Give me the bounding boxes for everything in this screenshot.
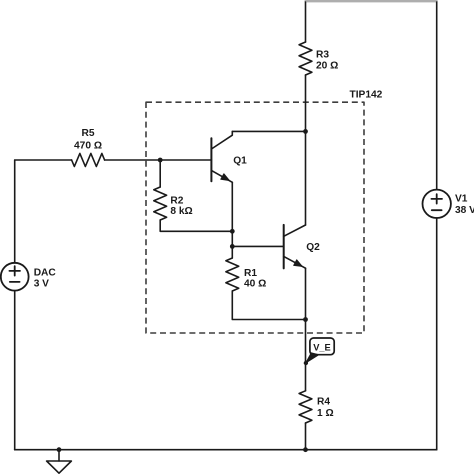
label R4 value 1 ohm [317,408,334,419]
svg-text:R5: R5 [81,128,94,139]
svg-text:38 V: 38 V [455,205,474,216]
label DAC value 3 V [34,278,49,289]
wire: bottom rail [15,449,437,451]
svg-text:R2: R2 [170,196,183,207]
label R5 name [81,128,94,139]
svg-text:Q2: Q2 [306,242,320,253]
label R2 name [170,196,183,207]
TIP142 dashed enclosure [146,102,364,333]
svg-text:R4: R4 [317,397,330,408]
svg-text:R3: R3 [316,50,329,61]
label R4 name [317,397,330,408]
svg-text:470 Ω: 470 Ω [74,141,102,152]
label R5 value 470 ohm [74,141,102,152]
voltage source V1 [423,190,451,218]
junction: R2 top on base wire [158,158,163,163]
wire: top rail from center rail to V1 [306,0,437,2]
junction: Q1 collector / center rail [303,129,308,134]
svg-text:1 Ω: 1 Ω [317,408,334,419]
wire: base wire right segment (R5 to Q1 base) [105,159,212,161]
junction: ground / bottom rail [57,447,62,452]
wire: Q2 base wire [232,245,283,247]
wire: R1 bottom vertical and horizontal to Q2 emitter vertical [232,291,305,320]
wire: center rail top (top rail to R3) [305,2,307,42]
resistor R4 (1 ohm) [299,391,312,423]
svg-text:R1: R1 [244,268,257,279]
wire: right rail upper (top rail to V1 plus terminal) [436,2,438,190]
wire: left rail lower (DAC minus to bottom rail) [14,291,16,450]
wire: Q1 collector to center rail [232,130,305,132]
wire: R2 top vertical (base wire junction down to R2) [159,160,161,187]
transistor Q1 (NPN) base bar [210,138,212,181]
resistor R1 (40 ohm) [226,258,239,291]
svg-text:40 Ω: 40 Ω [244,279,266,290]
transistor Q2 (NPN) base bar [283,225,285,269]
label V_E [313,343,331,353]
svg-text:3 V: 3 V [34,278,49,289]
label R3 value 20 ohm [316,61,338,72]
wire: center rail (R3 bottom through Q1 collector node to Q2 collector) [305,75,307,225]
resistor R2 (8 kohm) [154,187,167,220]
svg-text:8 kΩ: 8 kΩ [170,206,192,217]
wire: right rail lower (V1 minus terminal to bottom rail) [436,218,438,450]
transistor Q2 emitter lead with arrow [284,256,306,268]
junction: Q2 base branch on Q1 emitter vertical [230,244,235,249]
wire: Q1 emitter vertical down to R1 [231,182,233,258]
wire: Q2 emitter vertical down to R4 [305,268,307,391]
label V1 value 38 V [455,205,474,216]
junction: R1 wire / Q2 emitter vertical [303,317,308,322]
svg-text:TIP142: TIP142 [350,89,383,100]
junction: R2 wire / Q1 emitter vertical [230,229,235,234]
ground symbol [47,450,72,474]
label R1 value 40 ohm [244,279,266,290]
svg-text:Q1: Q1 [233,156,247,167]
label R2 value 8 kohm [170,206,192,217]
transistor Q2 collector lead [284,225,306,236]
svg-text:DAC: DAC [34,267,57,278]
wire: left rail upper (base wire corner down to DAC plus) [14,160,16,263]
label TIP142 [350,89,383,100]
junction: R4 / bottom rail [303,447,308,452]
node V_E flag callout [304,338,335,365]
label Q1 [233,156,247,167]
wire: base wire left segment (left rail to R5) [15,159,72,161]
resistor R3 (20 ohm) [299,42,312,75]
svg-text:V_E: V_E [313,343,331,353]
resistor R5 (470 ohm) [72,153,105,166]
voltage source DAC [1,263,29,291]
svg-text:V1: V1 [455,193,468,204]
label R1 name [244,268,257,279]
wire: R2 bottom vertical and horizontal to emitter node [160,220,232,231]
label R3 name [316,50,329,61]
label V1 name [455,193,468,204]
wire: R4 bottom to bottom rail [305,423,307,450]
transistor Q1 collector lead [211,131,232,149]
transistor Q1 emitter lead with arrow [211,170,232,182]
label DAC name [34,267,57,278]
label Q2 [306,242,320,253]
svg-text:20 Ω: 20 Ω [316,61,338,72]
